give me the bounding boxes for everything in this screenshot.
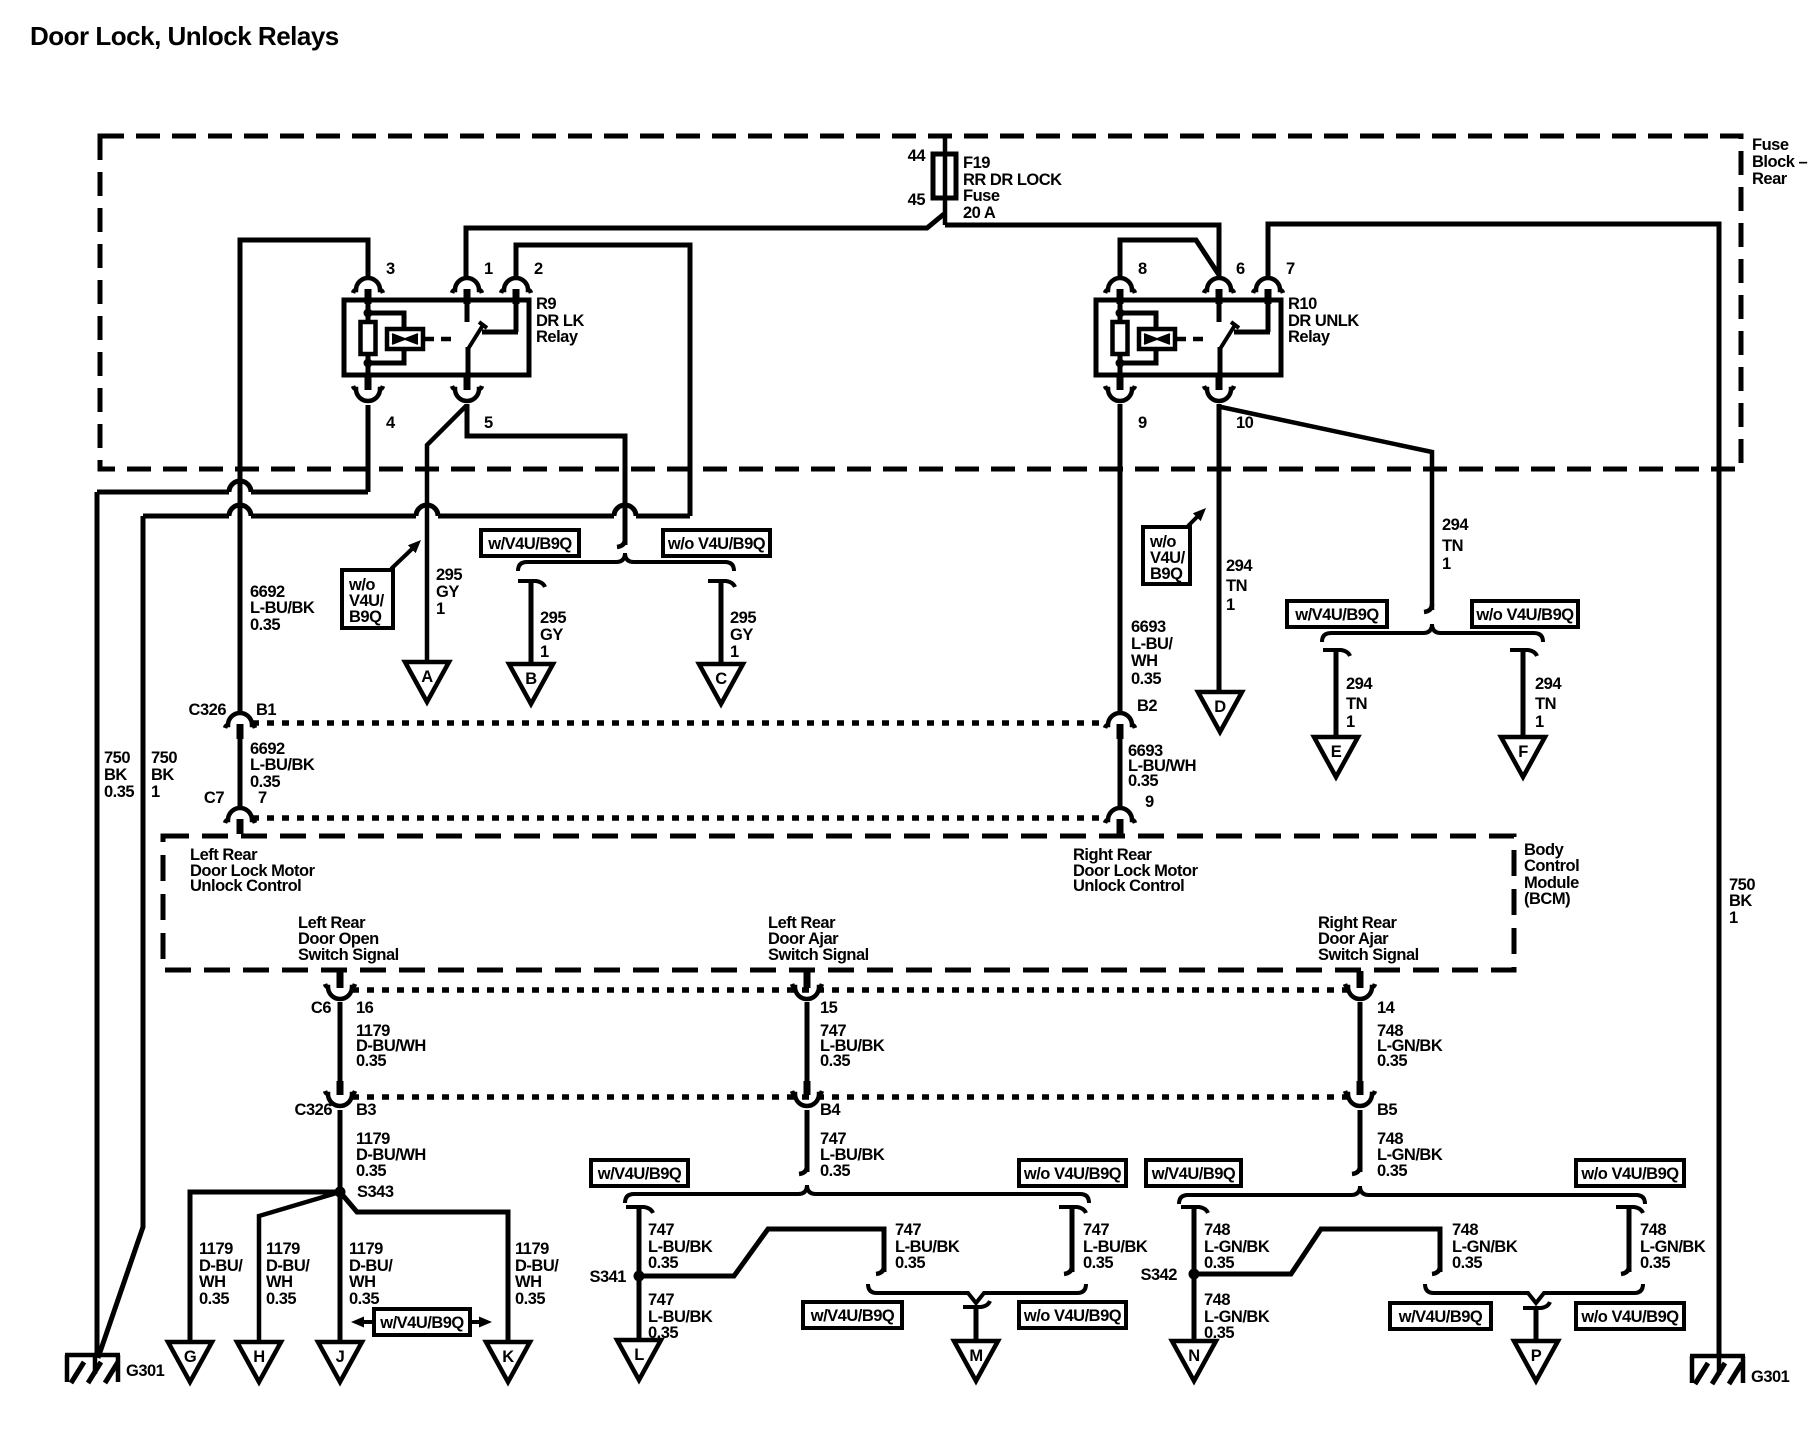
wire split to S342 to triangle N: [1192, 1209, 1197, 1341]
svg-text:B2: B2: [1137, 697, 1157, 715]
relay R10 pin 7 connector: [1253, 278, 1283, 293]
connector C7 pin 9: [1105, 808, 1135, 823]
svg-text:1: 1: [1442, 555, 1451, 573]
wire: R10 pin 10 to E/F split (294 TN): [1221, 407, 1432, 610]
svg-text:Relay: Relay: [536, 328, 579, 346]
svg-text:6693: 6693: [1131, 618, 1166, 636]
relay R9 pin 4 connector: [365, 376, 372, 390]
svg-text:0.35: 0.35: [104, 783, 134, 801]
wire to triangle F: [1521, 652, 1526, 737]
connector tick B: [518, 581, 545, 587]
wire hop over triangle A wire: [416, 505, 438, 516]
svg-text:Rear: Rear: [1752, 170, 1788, 188]
svg-text:750: 750: [104, 749, 130, 767]
connector C326 B2: [1105, 713, 1135, 728]
svg-text:294: 294: [1346, 675, 1373, 693]
wire to triangle C: [719, 583, 724, 664]
svg-text:0.35: 0.35: [1640, 1254, 1670, 1272]
wire to triangle E: [1334, 652, 1339, 737]
svg-text:0.35: 0.35: [1377, 1052, 1407, 1070]
svg-text:1: 1: [151, 783, 160, 801]
wire: fuse to relay R10 pin 6: [945, 225, 1219, 276]
svg-text:0.35: 0.35: [266, 1290, 296, 1308]
wire to triangle M: [974, 1309, 979, 1341]
svg-text:C326: C326: [295, 1101, 333, 1119]
svg-text:9: 9: [1138, 414, 1147, 432]
svg-text:0.35: 0.35: [356, 1162, 386, 1180]
svg-text:0.35: 0.35: [648, 1254, 678, 1272]
connector C326 B1: [225, 713, 255, 728]
svg-text:F: F: [1518, 743, 1528, 761]
svg-text:w/o V4U/B9Q: w/o V4U/B9Q: [1475, 606, 1574, 624]
wire hop over B1 wire: [229, 505, 251, 516]
747 right branch end hook: [1064, 1266, 1072, 1274]
option box w/V4U/B9Q (J/K): [374, 1309, 470, 1335]
option box w/V4U/B9Q (E): [1287, 601, 1387, 627]
svg-text:M: M: [969, 1347, 982, 1365]
connector triangle N: [1172, 1341, 1216, 1381]
svg-text:1: 1: [1346, 713, 1355, 731]
svg-text:2: 2: [534, 260, 543, 278]
arrow left to J wire: [364, 1320, 374, 1324]
wire 14 to B5: [1358, 1002, 1363, 1081]
svg-text:3: 3: [386, 260, 395, 278]
svg-text:1: 1: [730, 643, 739, 661]
svg-text:w/o V4U/B9Q: w/o V4U/B9Q: [1023, 1307, 1122, 1325]
svg-text:0.35: 0.35: [820, 1162, 850, 1180]
connector triangle M: [954, 1341, 998, 1381]
option split brace 748: [1179, 1186, 1645, 1204]
option split brace 747: [625, 1185, 1089, 1203]
arrow to D wire: [1188, 515, 1199, 526]
svg-text:0.35: 0.35: [356, 1052, 386, 1070]
option box w/o V4U/B9Q (A wire): [342, 570, 393, 628]
wire: fuse to relay R9 pin 1: [466, 214, 944, 276]
wire 748 right branch: [1627, 1209, 1632, 1272]
wire split to S341 to triangle L: [637, 1209, 642, 1340]
svg-text:w/V4U/B9Q: w/V4U/B9Q: [1294, 606, 1379, 624]
connector row C326 (B3/B4/B5): [352, 1094, 1348, 1100]
connector C6 pin 14: [1357, 971, 1364, 988]
connector tick 747 right: [1059, 1207, 1086, 1213]
wire S342 to lower split: [1194, 1229, 1440, 1274]
svg-text:w/V4U/B9Q: w/V4U/B9Q: [597, 1165, 682, 1183]
svg-text:Relay: Relay: [1288, 328, 1331, 346]
relay R10 switch: [1217, 300, 1222, 322]
svg-text:Block –: Block –: [1752, 153, 1808, 171]
connector C7 pin 7: [225, 808, 255, 823]
relay R10 pin 10 connector: [1216, 376, 1223, 390]
wire 747 right branch: [1070, 1209, 1075, 1272]
relay R10 coil: [1118, 300, 1123, 322]
wire: R9 pin 4 to ground (750 BK 0.35): [366, 405, 371, 492]
option box w/V4U/B9Q (B): [481, 530, 579, 556]
wire: R10 pin 10 to triangle D: [1217, 404, 1222, 692]
option box w/o V4U/B9Q (M right): [1019, 1302, 1126, 1328]
wire hop over node at x=625: [614, 505, 636, 516]
svg-text:TN: TN: [1226, 577, 1247, 595]
svg-text:0.35: 0.35: [1131, 670, 1161, 688]
svg-text:748: 748: [1204, 1291, 1230, 1309]
svg-text:D: D: [1214, 698, 1226, 716]
svg-text:w/V4U/B9Q: w/V4U/B9Q: [1151, 1165, 1236, 1183]
svg-text:S341: S341: [589, 1268, 626, 1286]
svg-text:G301: G301: [1751, 1368, 1790, 1386]
splice S341: [634, 1271, 645, 1282]
svg-text:1: 1: [436, 600, 445, 618]
option box w/o V4U/B9Q (C): [663, 530, 770, 556]
wire S343 to triangle G: [190, 1192, 340, 1342]
svg-text:747: 747: [895, 1221, 921, 1239]
S342 branch wire end hook: [1432, 1266, 1440, 1274]
svg-text:N: N: [1188, 1347, 1199, 1365]
svg-text:L: L: [634, 1346, 644, 1364]
svg-text:1179: 1179: [515, 1240, 549, 1258]
wire end hook at B/C split: [617, 539, 625, 547]
svg-text:WH: WH: [199, 1273, 226, 1291]
wire to triangle P: [1534, 1310, 1539, 1341]
svg-text:L-BU/BK: L-BU/BK: [250, 756, 315, 774]
svg-text:C326: C326: [189, 701, 227, 719]
svg-text:TN: TN: [1442, 537, 1463, 555]
svg-text:Unlock Control: Unlock Control: [190, 877, 301, 895]
wire B3 to S343 to triangle J: [338, 1110, 343, 1342]
relay R9 dashed link: [424, 337, 458, 342]
svg-text:(BCM): (BCM): [1524, 890, 1570, 908]
svg-text:TN: TN: [1346, 695, 1367, 713]
connector tick 747 left: [626, 1207, 653, 1213]
svg-text:C: C: [715, 670, 727, 688]
relay R10 pin 8 connector: [1105, 278, 1135, 293]
svg-text:0.35: 0.35: [1128, 772, 1158, 790]
svg-text:14: 14: [1377, 999, 1396, 1017]
connector C6 pin 16: [337, 971, 344, 988]
svg-text:R10: R10: [1288, 295, 1317, 313]
connector tick P: [1523, 1302, 1550, 1308]
svg-text:10: 10: [1236, 414, 1254, 432]
arrow to A wire: [391, 548, 413, 569]
connector C326 B4: [804, 1081, 811, 1095]
wire hop over B1 wire: [229, 481, 251, 492]
svg-text:294: 294: [1226, 557, 1253, 575]
wire B5 stem end: [1358, 1110, 1363, 1172]
svg-text:L-BU/BK: L-BU/BK: [250, 599, 315, 617]
connector triangle K: [486, 1342, 530, 1382]
svg-text:45: 45: [908, 191, 926, 209]
svg-text:w/o V4U/B9Q: w/o V4U/B9Q: [1580, 1308, 1679, 1326]
wire S343 to triangle H: [259, 1192, 340, 1342]
svg-text:0.35: 0.35: [199, 1290, 229, 1308]
wire: R9 pin 5 to triangle A: [427, 406, 466, 662]
svg-text:0.35: 0.35: [1452, 1254, 1482, 1272]
connector row C6: [352, 987, 1348, 993]
svg-text:C7: C7: [204, 789, 224, 807]
svg-text:A: A: [421, 668, 433, 686]
svg-text:Switch Signal: Switch Signal: [298, 946, 399, 964]
svg-text:9: 9: [1145, 793, 1154, 811]
wire S343 to triangle K: [340, 1192, 508, 1342]
ground G301 right: [1690, 1354, 1745, 1359]
connector triangle H: [237, 1342, 281, 1382]
relay R10 dashed link: [1176, 337, 1210, 342]
option box w/o V4U/B9Q (D wire): [1143, 527, 1190, 584]
svg-text:6: 6: [1236, 260, 1245, 278]
B4 wire end hook: [799, 1166, 807, 1174]
connector tick 748 right: [1616, 1207, 1643, 1213]
svg-text:w/V4U/B9Q: w/V4U/B9Q: [810, 1307, 895, 1325]
connector triangle F: [1501, 737, 1545, 777]
svg-text:1179: 1179: [199, 1240, 233, 1258]
svg-text:0.35: 0.35: [1377, 1162, 1407, 1180]
748 right branch end hook: [1621, 1266, 1629, 1274]
wire: R9 pin 3 to connector C326 B1: [240, 240, 368, 711]
fuse F19: [933, 154, 956, 198]
wire: R10 pin 7 to ground right (750 BK 1): [1268, 224, 1719, 1356]
option box w/o V4U/B9Q (747 right): [1019, 1160, 1126, 1186]
svg-text:Fuse: Fuse: [1752, 136, 1789, 154]
option box w/V4U/B9Q (747 left): [591, 1160, 688, 1186]
relay R9 pin 3 connector: [353, 278, 383, 293]
wire: R9 pin 2 to ground (750 BK 1): [516, 245, 690, 516]
svg-text:E: E: [1331, 743, 1342, 761]
connector C326 B3: [337, 1081, 344, 1095]
fuse block rear dashed box: [100, 136, 1741, 469]
connector C326 B5: [1357, 1081, 1364, 1095]
svg-text:747: 747: [1083, 1221, 1109, 1239]
svg-text:44: 44: [908, 147, 927, 165]
svg-text:747: 747: [648, 1221, 674, 1239]
svg-text:295: 295: [540, 609, 566, 627]
splice S343: [335, 1187, 346, 1198]
svg-text:K: K: [502, 1348, 514, 1366]
svg-text:F19: F19: [963, 154, 990, 172]
splice S342: [1189, 1269, 1200, 1280]
relay R9 solenoid box: [387, 329, 423, 349]
svg-text:WH: WH: [266, 1273, 293, 1291]
svg-text:w/V4U/B9Q: w/V4U/B9Q: [487, 535, 572, 553]
svg-text:w/V4U/B9Q: w/V4U/B9Q: [1398, 1308, 1483, 1326]
svg-text:B: B: [525, 670, 537, 688]
svg-text:B5: B5: [1377, 1101, 1397, 1119]
wire end hook at E/F split: [1424, 604, 1432, 612]
relay R9 switch: [465, 300, 470, 322]
svg-text:S343: S343: [357, 1183, 394, 1201]
option merge brace 747 lower: [868, 1284, 1086, 1303]
wire B4 stem end: [805, 1110, 810, 1172]
svg-text:GY: GY: [540, 626, 563, 644]
wire: R10 pin 8 to pin 6 node: [1120, 240, 1219, 276]
svg-text:B9Q: B9Q: [1150, 565, 1183, 583]
relay R10 box: [1096, 300, 1281, 375]
svg-text:BK: BK: [104, 766, 127, 784]
svg-text:w/V4U/B9Q: w/V4U/B9Q: [379, 1314, 464, 1332]
svg-text:GY: GY: [730, 626, 753, 644]
svg-text:0.35: 0.35: [250, 616, 280, 634]
svg-text:Switch Signal: Switch Signal: [1318, 946, 1419, 964]
option box w/o V4U/B9Q (748 right): [1576, 1160, 1684, 1186]
wire to triangle B: [529, 583, 534, 664]
svg-text:0.35: 0.35: [1204, 1254, 1234, 1272]
svg-text:15: 15: [820, 999, 838, 1017]
svg-text:w/o V4U/B9Q: w/o V4U/B9Q: [1580, 1165, 1679, 1183]
svg-text:295: 295: [730, 609, 756, 627]
connector triangle J: [318, 1342, 362, 1382]
svg-text:0.35: 0.35: [515, 1290, 545, 1308]
connector triangle E: [1314, 737, 1358, 777]
svg-text:0.35: 0.35: [349, 1290, 379, 1308]
svg-text:5: 5: [484, 414, 493, 432]
relay R9 pin 5 connector: [464, 376, 471, 390]
svg-text:1: 1: [484, 260, 493, 278]
option split brace B/C: [518, 553, 734, 571]
connector triangle G: [168, 1342, 212, 1382]
connector tick 748 left: [1181, 1207, 1208, 1213]
svg-text:4: 4: [386, 414, 396, 432]
svg-text:R9: R9: [536, 295, 556, 313]
svg-text:Switch Signal: Switch Signal: [768, 946, 869, 964]
svg-text:L-BU/: L-BU/: [1131, 635, 1173, 653]
svg-text:BK: BK: [151, 766, 174, 784]
svg-text:8: 8: [1138, 260, 1147, 278]
relay R10 solenoid box: [1139, 329, 1175, 349]
wire 16 to B3: [338, 1002, 343, 1081]
svg-text:0.35: 0.35: [820, 1052, 850, 1070]
body control module dashed box: [163, 836, 1514, 970]
svg-text:7: 7: [258, 789, 267, 807]
svg-text:P: P: [1531, 1347, 1542, 1365]
svg-text:748: 748: [1204, 1221, 1230, 1239]
wire B1 to C7 pin 7: [238, 737, 243, 806]
relay R9 pin 1 connector: [452, 278, 482, 293]
svg-text:294: 294: [1535, 675, 1562, 693]
connector tick E: [1323, 650, 1350, 656]
connector row C7: [252, 815, 1108, 821]
connector row C326 (B1/B2): [252, 720, 1108, 726]
svg-text:GY: GY: [436, 583, 459, 601]
arrow right to K wire: [470, 1320, 479, 1324]
svg-text:Unlock Control: Unlock Control: [1073, 877, 1184, 895]
svg-text:748: 748: [1452, 1221, 1478, 1239]
wire: R10 pin 9 to connector C326 B2: [1118, 404, 1123, 711]
option box w/V4U/B9Q (M left): [803, 1302, 902, 1328]
svg-text:1179: 1179: [266, 1240, 300, 1258]
connector triangle A: [405, 662, 449, 702]
relay R9 pin 2 connector: [501, 278, 531, 293]
option box w/o V4U/B9Q (P right): [1576, 1303, 1684, 1329]
svg-text:Door Lock, Unlock Relays: Door Lock, Unlock Relays: [30, 21, 339, 51]
svg-text:1: 1: [1226, 596, 1235, 614]
svg-text:B1: B1: [256, 701, 276, 719]
svg-text:1: 1: [540, 643, 549, 661]
fuse F19 wire: [943, 137, 948, 225]
svg-text:20 A: 20 A: [963, 204, 996, 222]
svg-text:7: 7: [1286, 260, 1295, 278]
svg-text:Fuse: Fuse: [963, 187, 1000, 205]
svg-text:G301: G301: [126, 1362, 165, 1380]
svg-text:B9Q: B9Q: [349, 608, 382, 626]
svg-text:WH: WH: [515, 1273, 542, 1291]
svg-text:294: 294: [1442, 516, 1469, 534]
option box w/V4U/B9Q (P left): [1390, 1303, 1491, 1329]
connector C6 pin 15: [804, 971, 811, 988]
connector tick F: [1510, 650, 1537, 656]
svg-text:Control: Control: [1524, 857, 1579, 875]
svg-text:WH: WH: [1131, 652, 1158, 670]
svg-text:1179: 1179: [349, 1240, 383, 1258]
svg-text:J: J: [336, 1348, 345, 1366]
svg-text:WH: WH: [349, 1273, 376, 1291]
option merge brace 748 lower: [1425, 1284, 1643, 1303]
svg-text:747: 747: [648, 1291, 674, 1309]
wire: R9 pin 5 branch to B/C split: [467, 404, 625, 545]
relay R10 pin 6 connector: [1204, 278, 1234, 293]
connector tick M: [963, 1301, 990, 1307]
wire S341 to lower split: [639, 1229, 884, 1276]
svg-text:1: 1: [1535, 713, 1544, 731]
connector triangle D: [1198, 692, 1242, 732]
svg-text:H: H: [253, 1348, 264, 1366]
connector triangle C: [699, 664, 743, 704]
svg-text:C6: C6: [311, 999, 331, 1017]
svg-text:748: 748: [1640, 1221, 1666, 1239]
B5 wire end hook: [1352, 1166, 1360, 1174]
option box w/o V4U/B9Q (F): [1472, 601, 1578, 627]
svg-text:16: 16: [356, 999, 374, 1017]
relay R9 box: [344, 300, 529, 375]
svg-text:G: G: [184, 1348, 196, 1366]
svg-text:w/o V4U/B9Q: w/o V4U/B9Q: [667, 535, 766, 553]
connector triangle P: [1514, 1341, 1558, 1381]
svg-text:1: 1: [1729, 909, 1738, 927]
wire B2 to C7 pin 9: [1118, 737, 1123, 806]
connector triangle L: [617, 1340, 661, 1380]
svg-text:BK: BK: [1729, 892, 1752, 910]
S341 branch wire end hook: [876, 1266, 884, 1274]
relay R9 coil: [366, 300, 371, 322]
svg-text:0.35: 0.35: [1083, 1254, 1113, 1272]
option split brace E/F: [1322, 624, 1543, 642]
svg-text:0.35: 0.35: [895, 1254, 925, 1272]
wire 15 to B4: [805, 1002, 810, 1081]
svg-text:w/o V4U/B9Q: w/o V4U/B9Q: [1023, 1165, 1122, 1183]
svg-text:295: 295: [436, 566, 462, 584]
svg-text:B4: B4: [820, 1101, 841, 1119]
connector triangle B: [509, 664, 553, 704]
svg-text:TN: TN: [1535, 695, 1556, 713]
svg-text:750: 750: [151, 749, 177, 767]
connector tick C: [708, 581, 735, 587]
relay R10 pin 9 connector: [1117, 376, 1124, 390]
svg-text:S342: S342: [1140, 1266, 1177, 1284]
ground G301 left: [65, 1353, 120, 1358]
svg-text:B3: B3: [356, 1101, 376, 1119]
option box w/V4U/B9Q (748 left): [1146, 1160, 1241, 1186]
